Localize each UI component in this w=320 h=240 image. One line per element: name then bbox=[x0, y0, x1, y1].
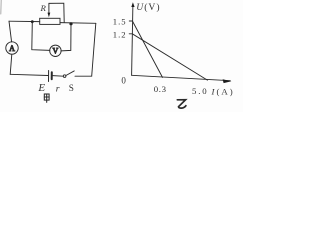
ammeter A bbox=[6, 42, 18, 54]
voltmeter V bbox=[50, 45, 61, 56]
svg-text:E: E bbox=[37, 82, 45, 94]
svg-text:5.0: 5.0 bbox=[192, 86, 208, 96]
svg-text:A: A bbox=[9, 44, 15, 53]
svg-text:R: R bbox=[40, 3, 47, 13]
svg-text:r: r bbox=[56, 83, 60, 94]
label yi (figure 2 mark) bbox=[177, 100, 186, 108]
svg-text:0: 0 bbox=[121, 75, 126, 85]
line U-I steep (1.5 to 0.3) bbox=[132, 21, 162, 77]
resistor R (rheostat body) bbox=[40, 18, 60, 24]
wire switch to corner bbox=[75, 75, 92, 77]
node voltmeter tap right junction bbox=[69, 22, 72, 25]
switch S blade bbox=[66, 71, 74, 76]
svg-text:1.2: 1.2 bbox=[113, 30, 127, 40]
axis U(V) vertical bbox=[131, 2, 134, 75]
svg-text:U(V): U(V) bbox=[136, 2, 160, 13]
wire voltmeter branch right leg bbox=[61, 24, 71, 51]
wire left side lower vertical bbox=[10, 54, 12, 74]
tick 1.2 bbox=[129, 33, 132, 35]
svg-text:S: S bbox=[69, 83, 74, 93]
axis I(A) horizontal bbox=[132, 75, 232, 83]
scan artifact left edge bbox=[0, 0, 2, 14]
wire left side upper vertical bbox=[9, 21, 12, 42]
battery E r (long plate) bbox=[48, 71, 50, 82]
wire voltmeter branch left leg bbox=[32, 22, 50, 51]
node voltmeter tap left junction bbox=[31, 20, 34, 23]
svg-text:V: V bbox=[53, 47, 59, 56]
wire right side vertical bbox=[92, 23, 96, 76]
switch S pivot bbox=[63, 75, 66, 78]
wire top-left horizontal bbox=[9, 20, 40, 22]
svg-text:I(A): I(A) bbox=[211, 86, 235, 96]
label jia (figure 1 mark) bbox=[44, 94, 49, 102]
tick 1.5 bbox=[129, 20, 132, 22]
wire top-right horizontal bbox=[60, 22, 96, 25]
line U-I shallow (1.2 to 5.0) bbox=[132, 34, 207, 80]
svg-text:1.5: 1.5 bbox=[113, 16, 127, 26]
svg-text:0.3: 0.3 bbox=[154, 84, 167, 94]
wire bottom-left horizontal bbox=[10, 74, 48, 75]
wire battery to switch bbox=[53, 75, 63, 78]
rheostat slider arrow bbox=[48, 3, 51, 17]
battery E r (short thick plate) bbox=[51, 72, 53, 79]
wire slider loop bbox=[49, 3, 64, 22]
